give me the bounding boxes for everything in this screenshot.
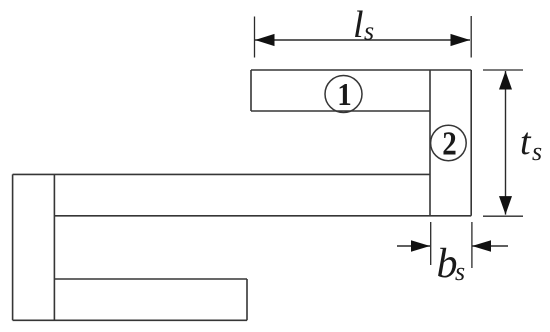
base flange bottom edge	[54, 215, 471, 217]
dimension l_s	[255, 4, 472, 58]
stiffener 2 right edge	[470, 70, 472, 216]
svg-text:s: s	[532, 137, 542, 166]
balloon circle 2	[431, 125, 467, 162]
svg-text:t: t	[520, 121, 532, 163]
extension line right	[470, 16, 472, 58]
extension line left	[254, 17, 256, 58]
svg-text:2: 2	[442, 126, 457, 163]
base flange top edge	[13, 173, 430, 175]
extension line left	[430, 222, 432, 265]
arrowhead down	[499, 196, 512, 215]
dimension line	[505, 71, 507, 215]
svg-text:s: s	[364, 17, 374, 46]
plate 1 bottom edge	[251, 110, 430, 112]
extension line right	[471, 222, 473, 268]
dimension line left	[397, 245, 430, 247]
svg-text:s: s	[455, 257, 465, 286]
balloon circle 1	[325, 76, 362, 113]
arrowhead up	[499, 71, 512, 90]
extension line bottom	[483, 215, 523, 217]
lower flange right edge	[246, 279, 248, 320]
lower flange top edge	[54, 278, 247, 280]
stiffener 2 left edge	[429, 70, 431, 216]
dimension line right	[472, 245, 508, 247]
dimension line	[255, 39, 470, 41]
dimension b_s	[397, 222, 508, 287]
left web outer edge	[12, 174, 14, 320]
bottom edge	[13, 319, 247, 321]
arrowhead right	[451, 34, 471, 46]
arrowhead pointing right	[411, 240, 430, 251]
svg-text:l: l	[353, 4, 364, 46]
extension line top	[483, 69, 523, 71]
arrowhead left	[255, 34, 275, 46]
left web inner edge	[53, 174, 55, 320]
arrowhead pointing left	[472, 240, 491, 251]
plate 1 left edge	[250, 70, 252, 111]
svg-text:1: 1	[337, 76, 352, 112]
dimension t_s	[483, 70, 542, 216]
plate 1 top edge	[251, 69, 471, 71]
